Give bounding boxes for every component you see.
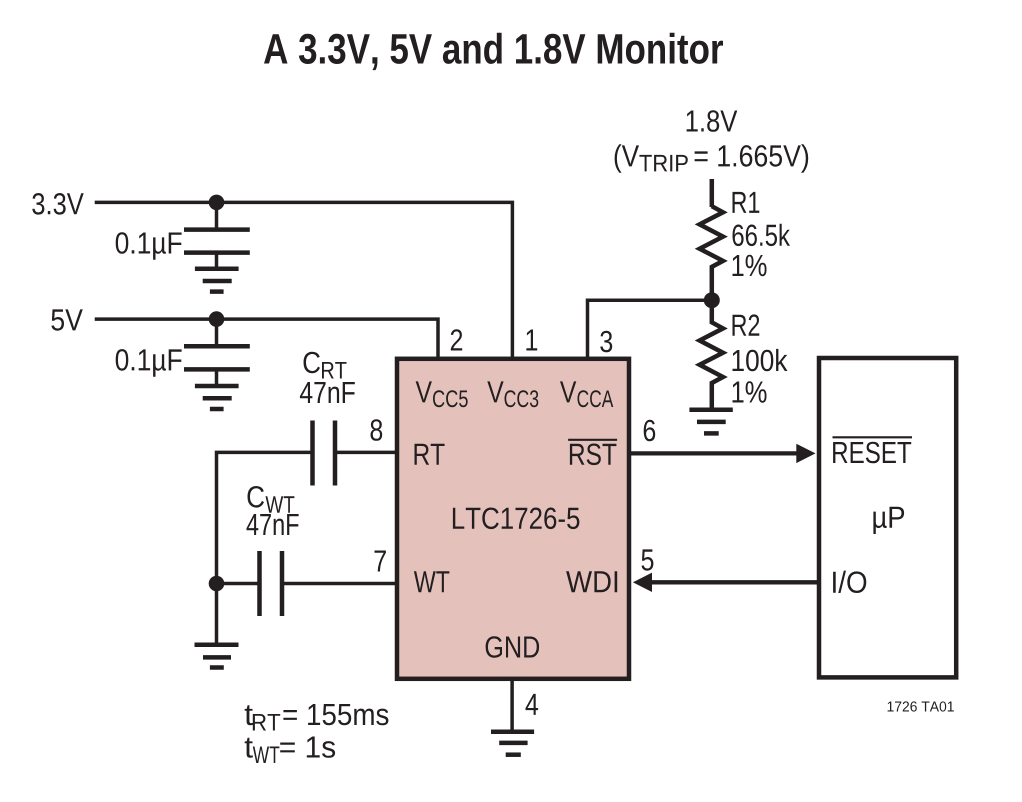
capacitor CWT plates	[260, 551, 283, 616]
note tRT = 155ms	[245, 704, 389, 731]
capacitor CRT value 47nF	[300, 382, 355, 403]
capacitor C1 0.1uF plates	[184, 230, 250, 253]
wire CWT to pin 7	[284, 582, 398, 586]
node junction dot divider	[704, 292, 720, 308]
uP label	[873, 507, 904, 534]
pin VCCA label	[560, 381, 613, 407]
node 5V label	[51, 309, 82, 330]
ground under WT node	[195, 645, 239, 668]
wire 3.3V rail to pin 1	[95, 202, 513, 358]
wire CRT to pin 8	[337, 451, 398, 455]
RST overline	[568, 439, 617, 441]
pin RST label	[570, 444, 617, 466]
pin 2 number	[451, 329, 462, 350]
pin 1 number	[526, 330, 537, 351]
wire WT left segment	[217, 582, 259, 586]
wire cap C1 bottom stub	[215, 253, 219, 269]
resistor R1 value 66.5k	[733, 224, 791, 246]
node junction dot WT	[209, 576, 225, 592]
pin 4 number	[526, 694, 539, 715]
resistor R2 tolerance 1%	[733, 381, 767, 402]
wire cap C1 top stub	[215, 202, 219, 228]
note tWT = 1s	[245, 737, 335, 764]
pin 3 number	[600, 331, 612, 353]
wire divider node to pin 3	[588, 300, 712, 358]
figure number 1726 TA01	[888, 701, 954, 711]
pin 5 number	[642, 549, 654, 570]
wire RST to RESET	[629, 451, 798, 455]
capacitor CWT designator	[248, 486, 295, 513]
capacitor C1 value 0.1uF	[116, 232, 182, 260]
RESET overline	[833, 436, 913, 438]
resistor R1 designator	[733, 192, 760, 213]
pin RT label	[415, 444, 445, 465]
wire pin 4 GND stub	[510, 679, 514, 732]
ground under C1	[195, 269, 239, 292]
arrowhead RESET	[796, 444, 815, 463]
node junction dot 3.3V	[209, 195, 225, 211]
resistor R2	[700, 300, 723, 410]
resistor R2 value 100k	[733, 349, 788, 371]
pin WT label	[414, 571, 450, 592]
IC name LTC1726-5	[453, 508, 580, 530]
pin 7 number	[375, 551, 386, 572]
node junction dot 5V	[209, 311, 225, 327]
wire 5V rail to pin 2	[95, 319, 438, 358]
wire cap C2 bottom stub	[215, 369, 219, 386]
arrowhead WDI	[633, 573, 652, 592]
node 1.8V label	[687, 110, 738, 132]
resistor R1 tolerance 1%	[733, 255, 767, 276]
resistor R2 designator	[733, 314, 760, 335]
ground under C2	[195, 386, 239, 409]
pin VCC5 label	[416, 381, 468, 407]
note VTRIP = 1.665V	[615, 144, 809, 172]
ground pin 4	[491, 732, 534, 755]
pin 8 number	[371, 419, 383, 441]
title	[264, 33, 723, 70]
pin 6 number	[644, 420, 656, 442]
pin I/O label	[833, 571, 866, 593]
ground under R2	[689, 410, 732, 434]
pin GND label	[486, 636, 539, 658]
capacitor C2 0.1uF plates	[184, 346, 250, 369]
pin WDI label	[566, 571, 617, 592]
pin RESET label	[833, 442, 911, 464]
wire 1.8V lead	[710, 179, 715, 207]
wire RT left segment and left vertical	[217, 452, 311, 644]
op-amp U1 LTC1726-5 body	[397, 359, 629, 679]
node 3.3V label	[32, 193, 83, 215]
resistor R1	[700, 206, 723, 300]
wire I/O to WDI	[651, 580, 819, 584]
wire cap C2 top stub	[215, 319, 219, 344]
pin VCC3 label	[487, 381, 538, 407]
microprocessor uP box	[819, 358, 956, 677]
capacitor CRT designator	[304, 352, 347, 379]
capacitor C2 value 0.1uF	[116, 349, 182, 377]
capacitor CWT value 47nF	[247, 514, 299, 535]
capacitor CRT plates	[313, 421, 336, 486]
